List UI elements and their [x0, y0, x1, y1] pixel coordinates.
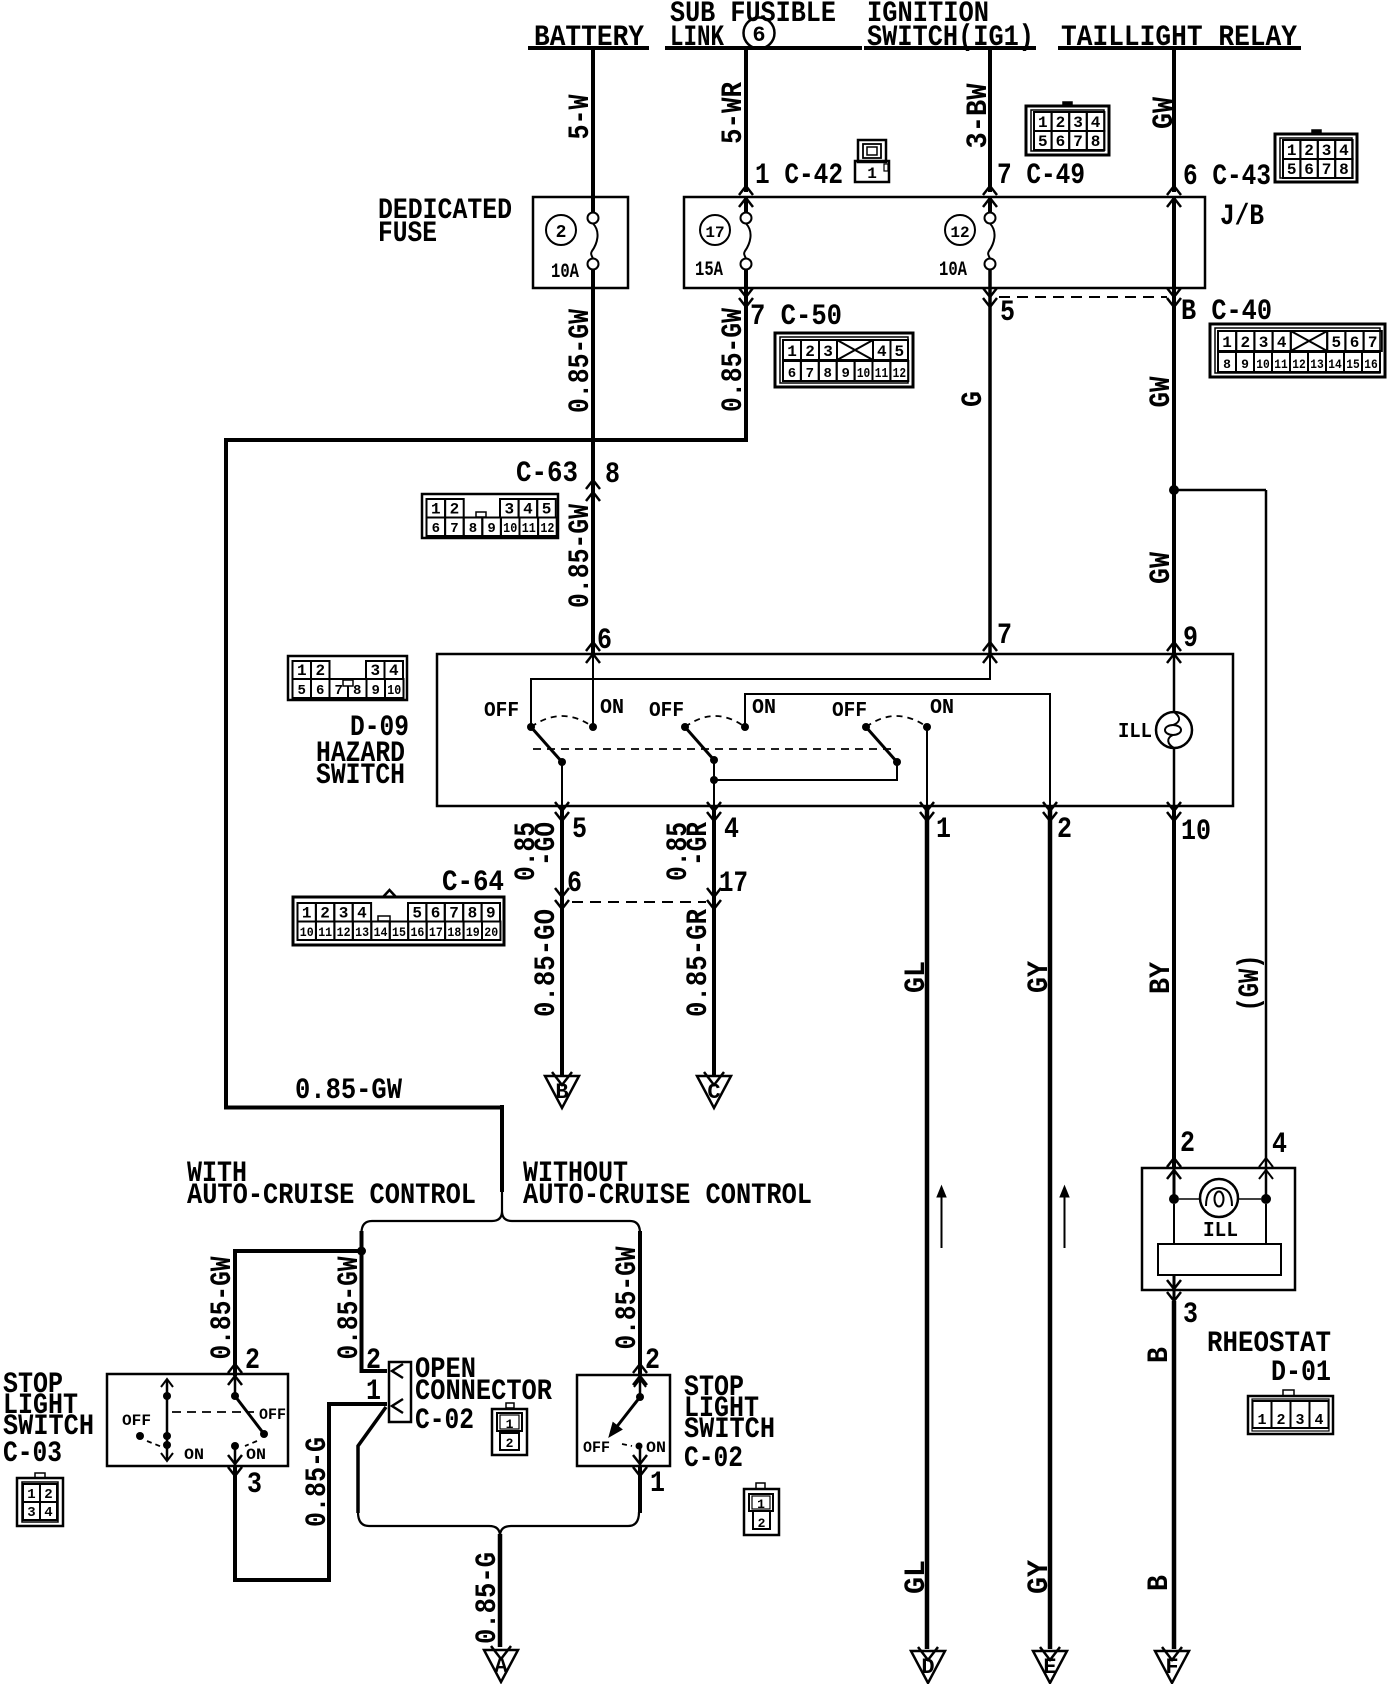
svg-text:4: 4 — [357, 905, 367, 923]
hazard wire pole2 to pin4 — [713, 760, 715, 806]
junction block J/B box — [684, 197, 1205, 288]
svg-text:3: 3 — [247, 1468, 262, 1502]
svg-text:1: 1 — [757, 1497, 765, 1512]
direction arrow GL — [941, 1196, 943, 1248]
hazard junction pole2-pole3 — [710, 776, 718, 784]
connector C-40 icon — [1210, 324, 1385, 377]
svg-text:ON: ON — [184, 1446, 204, 1464]
rheostat resistor — [1158, 1244, 1281, 1275]
svg-text:4: 4 — [1314, 1412, 1323, 1429]
svg-text:OFF: OFF — [583, 1439, 610, 1457]
svg-text:6: 6 — [432, 521, 440, 537]
arrow into triangle A — [491, 1646, 511, 1659]
hazard switch 3 contacts — [862, 723, 870, 731]
pin 2 arrows C-03 — [228, 1364, 242, 1373]
hazard switch box D-09 — [437, 654, 1233, 806]
rheostat wire lamp right down — [1265, 1204, 1267, 1245]
svg-text:2: 2 — [805, 343, 815, 361]
pin arrows into J/B top — [739, 186, 753, 195]
svg-text:1: 1 — [1222, 334, 1232, 352]
wire battery 0.85-GW — [591, 270, 595, 654]
svg-text:2: 2 — [1057, 813, 1072, 847]
brace merge bottom — [358, 1512, 639, 1536]
arrow into triangle C — [704, 1072, 724, 1085]
rheostat ILL lamp — [1200, 1179, 1238, 1217]
node F triangle — [1155, 1651, 1189, 1683]
pin arrows C-64 wire4 — [707, 888, 721, 897]
svg-text:10: 10 — [300, 925, 314, 940]
svg-text:7: 7 — [450, 521, 458, 537]
C-02 pivot — [636, 1393, 644, 1401]
svg-text:OFF: OFF — [649, 700, 684, 723]
hazard wire pole3 link — [714, 762, 897, 780]
svg-text:0.85-GW: 0.85-GW — [564, 309, 598, 413]
svg-text:9: 9 — [486, 905, 496, 923]
pin 7 arrows — [983, 642, 997, 651]
svg-text:6: 6 — [567, 867, 582, 901]
wire 0.85-GW horizontal lower — [224, 1106, 502, 1110]
svg-text:5: 5 — [542, 501, 552, 519]
hazard mechanical link dashed — [533, 748, 893, 750]
wire sub fusible 0.85-GW down — [744, 270, 748, 442]
hazard switch 3 dashed arc — [866, 716, 927, 727]
svg-text:B: B — [1143, 1347, 1177, 1363]
svg-text:16: 16 — [1364, 357, 1378, 372]
svg-text:3: 3 — [339, 905, 349, 923]
node D triangle — [911, 1651, 945, 1683]
hazard wire lamp to pin10 — [1173, 748, 1176, 806]
svg-text:7: 7 — [335, 683, 343, 699]
svg-text:17: 17 — [719, 867, 748, 901]
svg-text:AUTO-CRUISE CONTROL: AUTO-CRUISE CONTROL — [187, 1179, 476, 1213]
open connector symbol — [389, 1362, 411, 1422]
svg-text:B: B — [555, 1080, 568, 1105]
svg-text:8: 8 — [824, 366, 832, 382]
arrow into triangle B — [552, 1072, 572, 1085]
svg-text:GY: GY — [1023, 961, 1057, 993]
svg-text:10A: 10A — [551, 261, 579, 284]
arrow into triangle F — [1162, 1647, 1182, 1660]
svg-text:2: 2 — [44, 1487, 52, 1503]
svg-text:OFF: OFF — [484, 700, 519, 723]
svg-text:OFF: OFF — [832, 700, 867, 723]
svg-text:12: 12 — [893, 366, 906, 382]
svg-text:1: 1 — [297, 662, 307, 680]
wire 0.85-GW down to brace — [500, 1105, 504, 1192]
svg-text:4: 4 — [389, 662, 399, 680]
hazard switch 1 blade — [531, 727, 562, 762]
pin 2 arrows C-02 switch — [633, 1364, 647, 1373]
arrow into triangle E — [1040, 1647, 1060, 1660]
svg-text:8: 8 — [605, 458, 620, 492]
pin 4 arrows — [707, 802, 721, 811]
pin arrows out of J/B bottom — [739, 288, 753, 297]
svg-text:10: 10 — [503, 521, 517, 537]
svg-text:2: 2 — [1304, 142, 1314, 160]
brace split top — [362, 1192, 641, 1233]
wire with-branch vertical — [360, 1231, 364, 1253]
svg-text:1: 1 — [867, 165, 877, 183]
connector C-43 icon — [1275, 134, 1357, 182]
svg-text:6: 6 — [752, 23, 765, 48]
C-03 dashed to ON — [245, 1441, 257, 1446]
svg-text:4: 4 — [523, 501, 533, 519]
C-03 dashed link — [172, 1411, 254, 1413]
svg-text:17: 17 — [705, 224, 724, 242]
hazard switch 1 dashed arc — [531, 716, 593, 727]
svg-text:1: 1 — [1287, 142, 1297, 160]
wire branch to C-03 — [235, 1251, 362, 1376]
connector C-50 icon — [775, 333, 913, 387]
svg-text:8: 8 — [353, 683, 361, 699]
svg-text:A: A — [494, 1654, 508, 1679]
hazard wire ON3 to pin1 — [926, 727, 928, 806]
C-02 ON contact — [636, 1443, 643, 1450]
svg-text:F: F — [1165, 1655, 1178, 1680]
svg-text:1: 1 — [1038, 114, 1048, 132]
svg-text:1: 1 — [506, 1417, 514, 1432]
svg-text:OFF: OFF — [122, 1412, 151, 1430]
rheostat node right — [1261, 1194, 1271, 1204]
svg-text:GW: GW — [1148, 97, 1182, 129]
svg-text:11: 11 — [1274, 357, 1288, 372]
connector D-09 icon — [288, 656, 407, 700]
wire GL — [925, 806, 930, 1649]
svg-text:AUTO-CRUISE CONTROL: AUTO-CRUISE CONTROL — [523, 1179, 812, 1213]
svg-text:9: 9 — [841, 366, 849, 382]
svg-text:12: 12 — [337, 925, 351, 940]
hazard wire pin6 to ON1 — [592, 654, 594, 727]
dashed line C-40 route — [999, 296, 1167, 298]
svg-text:5: 5 — [894, 343, 904, 361]
svg-text:12: 12 — [1292, 357, 1306, 372]
C-03 left off contact — [136, 1432, 144, 1440]
svg-text:ON: ON — [930, 697, 954, 720]
svg-text:0.85-GW: 0.85-GW — [717, 308, 751, 412]
junction with-branch — [357, 1247, 366, 1256]
svg-text:2: 2 — [366, 1344, 381, 1378]
svg-text:6: 6 — [788, 366, 796, 382]
svg-text:14: 14 — [1328, 357, 1342, 372]
wire GW branch to right — [1174, 489, 1266, 492]
svg-text:10: 10 — [387, 683, 401, 699]
svg-text:2: 2 — [1056, 114, 1066, 132]
svg-text:5: 5 — [412, 905, 422, 923]
rheostat pin 2 arrows — [1167, 1158, 1181, 1167]
pin 6 arrows — [586, 642, 600, 651]
rheostat wire out — [1173, 1275, 1176, 1301]
svg-text:BY: BY — [1145, 962, 1179, 994]
svg-text:3: 3 — [823, 343, 833, 361]
hazard wire ON2 to pin2 — [745, 694, 1050, 806]
svg-text:9: 9 — [1183, 622, 1198, 656]
hazard switch 2 blade — [685, 727, 714, 760]
fuse 2 circled — [546, 215, 576, 245]
wire pin4 0.85-GR upper — [712, 806, 716, 1075]
pin 10 arrows — [1167, 802, 1181, 811]
svg-text:B: B — [1143, 1575, 1177, 1591]
fuse 2 element — [588, 213, 599, 224]
svg-text:5-WR: 5-WR — [717, 82, 751, 144]
fuse 12 circled — [945, 215, 975, 245]
wire 0.85-G to A — [498, 1534, 503, 1647]
hazard switch 1 contacts — [527, 723, 535, 731]
svg-text:6: 6 — [1350, 334, 1360, 352]
C-03 plunger — [166, 1380, 169, 1460]
svg-text:5: 5 — [1331, 334, 1341, 352]
wire BY pin10 to rheostat — [1172, 806, 1176, 1168]
wire ignition 3-BW — [988, 50, 992, 192]
dashed link C-64 — [572, 901, 706, 903]
node B triangle — [545, 1076, 579, 1108]
C-03 blade — [235, 1396, 264, 1434]
wire sub fusible above fuse — [744, 196, 748, 213]
svg-text:ON: ON — [246, 1446, 266, 1464]
hazard wire pin7 feed — [531, 654, 990, 727]
svg-text:GW: GW — [1145, 552, 1179, 584]
svg-text:2: 2 — [645, 1344, 660, 1378]
svg-text:20: 20 — [484, 925, 498, 940]
rheostat node left — [1169, 1194, 1179, 1204]
svg-text:3: 3 — [1183, 1298, 1198, 1332]
svg-text:1: 1 — [650, 1467, 665, 1501]
svg-text:2: 2 — [1240, 334, 1250, 352]
node C triangle — [697, 1076, 731, 1108]
svg-text:3: 3 — [504, 501, 514, 519]
svg-text:5: 5 — [298, 683, 306, 699]
svg-text:4: 4 — [1272, 1128, 1287, 1162]
svg-text:1: 1 — [27, 1487, 35, 1503]
svg-text:10: 10 — [857, 366, 870, 382]
svg-text:3: 3 — [1259, 334, 1269, 352]
svg-text:GL: GL — [900, 961, 934, 993]
svg-text:7: 7 — [1322, 161, 1332, 179]
C-03 pivot — [231, 1392, 239, 1400]
arrow into triangle D — [918, 1647, 938, 1660]
svg-text:4: 4 — [1339, 142, 1349, 160]
connector C-02 icon left — [492, 1409, 527, 1455]
svg-text:1: 1 — [431, 501, 441, 519]
svg-text:16: 16 — [410, 925, 424, 940]
connector C-63 icon — [422, 494, 558, 538]
svg-text:7: 7 — [806, 366, 814, 382]
svg-text:9: 9 — [487, 521, 495, 537]
svg-text:6: 6 — [1304, 161, 1314, 179]
svg-text:J/B: J/B — [1220, 200, 1264, 234]
wire ignition above fuse — [988, 196, 992, 213]
C-02 dashed to ON — [622, 1444, 632, 1446]
C-03 ON contact — [231, 1442, 239, 1450]
wire battery 5-W — [591, 50, 595, 212]
svg-text:3: 3 — [1295, 1412, 1304, 1429]
svg-text:3: 3 — [370, 662, 380, 680]
svg-text:E: E — [1043, 1655, 1056, 1680]
pin arrows C-63 — [586, 480, 600, 489]
fuse 17 circled — [700, 215, 730, 245]
connector C-02 icon right — [744, 1489, 779, 1535]
svg-text:7: 7 — [449, 905, 459, 923]
dedicated fuse box — [533, 197, 628, 288]
svg-text:D-01: D-01 — [1271, 1356, 1331, 1390]
connector C-64 icon — [293, 897, 504, 945]
wire taillight through J/B — [1172, 197, 1176, 288]
svg-text:3: 3 — [1322, 142, 1332, 160]
svg-text:C-02: C-02 — [415, 1404, 474, 1438]
svg-text:8: 8 — [1223, 357, 1231, 372]
wire taillight GW — [1172, 50, 1176, 192]
connector C-42 icon — [858, 140, 886, 162]
svg-text:OFF: OFF — [259, 1406, 286, 1424]
svg-text:(GW): (GW) — [1234, 955, 1268, 1012]
svg-text:12: 12 — [950, 224, 969, 242]
wire GY — [1048, 806, 1053, 1649]
rheostat wire lamp left down — [1173, 1204, 1175, 1245]
stop light switch C-03 box — [107, 1374, 288, 1466]
pin arrows C-64 wire5 — [555, 888, 569, 897]
svg-text:1: 1 — [936, 813, 951, 847]
pin 5 arrows — [555, 802, 569, 811]
pin 9 arrows — [1167, 642, 1181, 651]
wire branch to open connector — [362, 1251, 388, 1371]
svg-text:2: 2 — [1180, 1127, 1195, 1161]
wire B rheostat to F — [1172, 1301, 1177, 1649]
hazard switch 2 contacts — [681, 723, 689, 731]
svg-text:0.85-GW: 0.85-GW — [611, 1247, 645, 1350]
pin 3 arrows C-03 — [228, 1455, 242, 1464]
svg-text:ILL: ILL — [1118, 721, 1152, 744]
connector C-49 icon — [1026, 106, 1109, 155]
svg-text:4: 4 — [877, 343, 887, 361]
svg-text:ON: ON — [646, 1439, 666, 1457]
svg-text:14: 14 — [374, 925, 388, 940]
svg-text:GL: GL — [900, 1560, 934, 1594]
svg-text:8: 8 — [1339, 161, 1349, 179]
wire 0.85-GW horizontal run — [224, 438, 748, 442]
svg-text:ON: ON — [752, 697, 776, 720]
svg-text:D: D — [921, 1655, 934, 1680]
hazard switch 3 blade — [866, 727, 897, 762]
svg-text:4: 4 — [1091, 114, 1101, 132]
svg-text:5: 5 — [1038, 133, 1048, 151]
rheostat box D-01 — [1142, 1168, 1295, 1290]
svg-text:7: 7 — [997, 619, 1012, 653]
svg-text:1 C-42: 1 C-42 — [755, 159, 843, 193]
svg-text:7 C-49: 7 C-49 — [997, 159, 1085, 193]
rheostat wire pin4 in — [1265, 1168, 1268, 1199]
rheostat wire pin2 in — [1173, 1168, 1176, 1199]
svg-text:13: 13 — [1310, 357, 1324, 372]
svg-text:7: 7 — [1073, 133, 1083, 151]
wire without-branch vertical — [638, 1231, 642, 1376]
svg-text:6: 6 — [316, 683, 324, 699]
svg-text:0.85-GO: 0.85-GO — [530, 909, 564, 1017]
svg-text:6: 6 — [431, 905, 441, 923]
svg-text:6 C-43: 6 C-43 — [1183, 160, 1271, 194]
svg-text:3: 3 — [1073, 114, 1083, 132]
svg-text:C: C — [707, 1080, 720, 1105]
svg-text:4: 4 — [1277, 334, 1287, 352]
C-03 wire pin2 in — [234, 1376, 237, 1396]
svg-text:1: 1 — [302, 905, 312, 923]
svg-text:2: 2 — [450, 501, 460, 519]
svg-text:6: 6 — [597, 624, 612, 658]
svg-text:11: 11 — [522, 521, 536, 537]
hazard wire pole1 to pin5 — [561, 762, 563, 806]
svg-text:0.85-GW: 0.85-GW — [564, 504, 598, 608]
svg-text:-GR: -GR — [682, 822, 716, 866]
wire sub fusible 5-WR — [744, 50, 748, 192]
pin 1 arrows C-02 switch — [633, 1455, 647, 1464]
svg-text:C-03: C-03 — [3, 1437, 62, 1471]
svg-text:8: 8 — [469, 521, 477, 537]
svg-text:2: 2 — [506, 1436, 514, 1451]
svg-text:1: 1 — [1257, 1412, 1266, 1429]
svg-text:9: 9 — [1241, 357, 1249, 372]
svg-text:4: 4 — [44, 1505, 52, 1521]
svg-text:10: 10 — [1256, 357, 1270, 372]
svg-text:15: 15 — [1346, 357, 1360, 372]
svg-text:ILL: ILL — [1203, 1220, 1238, 1243]
svg-text:2: 2 — [320, 905, 330, 923]
svg-text:C-63: C-63 — [516, 457, 578, 491]
pin 2 arrows — [1043, 802, 1057, 811]
svg-text:-GO: -GO — [530, 822, 564, 866]
svg-text:C-64: C-64 — [442, 866, 504, 900]
svg-text:8: 8 — [1091, 133, 1101, 151]
wire ignition G down — [988, 270, 992, 654]
svg-text:0.85-G: 0.85-G — [301, 1437, 335, 1527]
svg-text:ON: ON — [600, 697, 624, 720]
svg-text:9: 9 — [372, 683, 380, 699]
svg-text:4: 4 — [724, 813, 739, 847]
svg-text:17: 17 — [429, 925, 443, 940]
hazard ILL lamp — [1156, 712, 1192, 748]
C-02 wire to pin1 — [639, 1446, 642, 1466]
svg-text:1: 1 — [787, 343, 797, 361]
connector D-01 icon — [1248, 1396, 1333, 1434]
direction arrow GY — [1064, 1196, 1066, 1248]
svg-text:10A: 10A — [939, 259, 967, 282]
svg-text:FUSE: FUSE — [378, 217, 437, 251]
svg-text:2: 2 — [758, 1516, 766, 1531]
svg-text:0.85-GW: 0.85-GW — [295, 1074, 402, 1108]
wire pin5 0.85-GO upper — [560, 806, 564, 1075]
hazard switch 2 dashed arc — [685, 716, 745, 727]
svg-text:11: 11 — [875, 366, 888, 382]
svg-text:15: 15 — [392, 925, 406, 940]
C-02 wire pin2 in — [639, 1376, 642, 1397]
svg-text:GW: GW — [1145, 377, 1179, 408]
svg-text:0.85-GW: 0.85-GW — [206, 1257, 240, 1360]
svg-text:SWITCH: SWITCH — [316, 759, 405, 793]
svg-text:19: 19 — [466, 925, 480, 940]
svg-text:2: 2 — [315, 662, 325, 680]
wire C-03 pin3 to open connector — [235, 1404, 387, 1580]
svg-text:2: 2 — [1276, 1412, 1285, 1429]
rheostat pin 4 arrows — [1259, 1158, 1273, 1167]
svg-text:11: 11 — [318, 925, 332, 940]
svg-text:5: 5 — [572, 813, 587, 847]
svg-text:C-02: C-02 — [684, 1442, 743, 1476]
svg-text:8: 8 — [468, 905, 478, 923]
svg-text:GY: GY — [1023, 1560, 1057, 1594]
junction taillight GW branch — [1169, 485, 1179, 495]
wire C-02 pin1 down — [638, 1466, 642, 1513]
svg-text:3-BW: 3-BW — [962, 84, 996, 149]
C-03 wire to pin3 — [234, 1446, 237, 1466]
svg-text:0.85-GR: 0.85-GR — [682, 909, 716, 1017]
node A triangle — [484, 1650, 518, 1682]
